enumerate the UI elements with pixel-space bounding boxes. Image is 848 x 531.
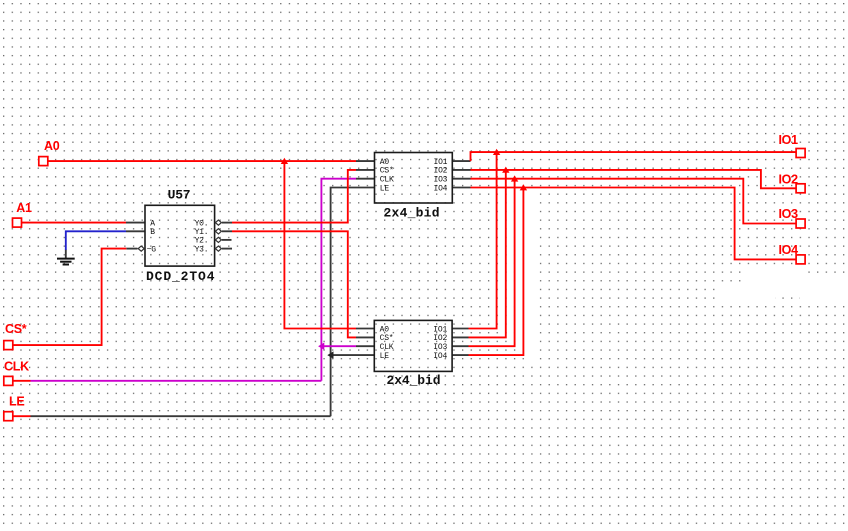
svg-text:A0: A0	[380, 325, 390, 334]
svg-text:Y3.: Y3.	[195, 245, 209, 254]
svg-text:IO3: IO3	[779, 207, 799, 221]
svg-text:CLK: CLK	[4, 360, 29, 374]
svg-text:2x4_bid: 2x4_bid	[384, 206, 440, 221]
svg-text:IO3: IO3	[433, 343, 447, 352]
svg-text:DCD_2TO4: DCD_2TO4	[146, 269, 215, 284]
svg-text:IO2: IO2	[779, 172, 799, 186]
svg-text:CS*: CS*	[5, 322, 27, 336]
svg-text:CLK: CLK	[380, 343, 394, 352]
svg-text:Y0.: Y0.	[195, 219, 209, 228]
svg-text:IO1: IO1	[433, 158, 447, 167]
svg-text:CLK: CLK	[380, 176, 394, 185]
svg-text:U57: U57	[168, 188, 191, 203]
svg-text:IO4: IO4	[433, 184, 447, 193]
svg-text:IO2: IO2	[433, 334, 447, 343]
svg-text:CS*: CS*	[380, 334, 394, 343]
svg-text:CS*: CS*	[380, 167, 394, 176]
svg-text:A: A	[150, 219, 155, 228]
svg-text:LE: LE	[9, 394, 24, 408]
svg-text:IO1: IO1	[433, 325, 447, 334]
svg-text:Y2.: Y2.	[195, 237, 209, 246]
svg-text:IO1: IO1	[779, 133, 799, 147]
svg-text:A0: A0	[380, 158, 390, 167]
svg-text:LE: LE	[380, 184, 390, 193]
svg-text:A0: A0	[44, 139, 60, 153]
svg-text:IO4: IO4	[433, 352, 447, 361]
svg-text:B: B	[150, 228, 155, 237]
svg-text:IO3: IO3	[433, 176, 447, 185]
svg-text:IO2: IO2	[433, 167, 447, 176]
svg-text:LE: LE	[380, 352, 390, 361]
svg-text:IO4: IO4	[779, 243, 799, 257]
svg-text:~G: ~G	[147, 245, 157, 254]
svg-text:A1: A1	[16, 201, 32, 215]
svg-text:2x4_bid: 2x4_bid	[387, 373, 441, 388]
